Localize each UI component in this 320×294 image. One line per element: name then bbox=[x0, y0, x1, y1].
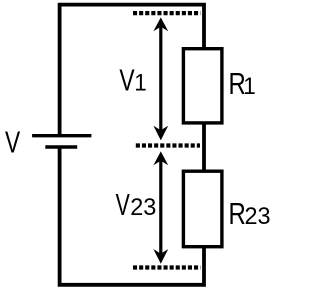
svg-text:V: V bbox=[116, 187, 130, 222]
resistor R23 bbox=[183, 171, 222, 247]
node bottom dotted line bbox=[133, 265, 200, 269]
wire bottom loop: left vertical lower + bottom wire + right stub to R23 bbox=[60, 147, 204, 285]
wire between R1 and R23 bbox=[202, 123, 206, 171]
label R1 bbox=[229, 66, 256, 101]
svg-text:23: 23 bbox=[245, 203, 271, 230]
svg-text:1: 1 bbox=[243, 73, 256, 100]
node middle dotted line bbox=[136, 143, 200, 147]
V23 measurement arrow (double-headed) bbox=[153, 151, 168, 263]
svg-text:V: V bbox=[5, 125, 20, 160]
svg-text:23: 23 bbox=[130, 194, 156, 221]
svg-text:1: 1 bbox=[134, 70, 147, 97]
label R23 bbox=[229, 196, 271, 231]
label V23 bbox=[116, 187, 157, 222]
svg-text:V: V bbox=[119, 63, 134, 98]
resistor R1 bbox=[183, 49, 222, 123]
label V1 bbox=[119, 63, 146, 98]
V1 measurement arrow (double-headed) bbox=[153, 17, 168, 140]
battery V long plate bbox=[32, 134, 91, 137]
wire top loop: left vertical upper + top wire + right stub to R1 bbox=[60, 5, 204, 136]
battery V short plate bbox=[45, 145, 77, 148]
node top dotted line bbox=[133, 11, 200, 15]
svg-text:R: R bbox=[229, 196, 246, 231]
